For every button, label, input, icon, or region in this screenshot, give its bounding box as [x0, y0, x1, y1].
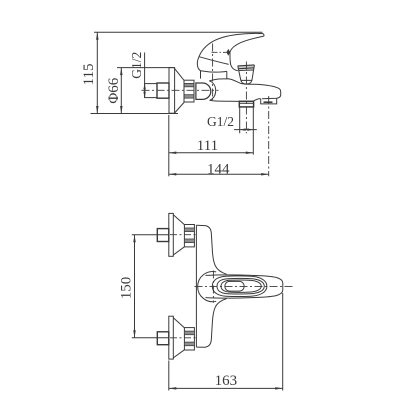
eccentric pipe — [145, 84, 157, 98]
svg-text:163: 163 — [215, 373, 238, 389]
wall flange top — [169, 213, 174, 256]
main centerline — [142, 89, 219, 91]
svg-text:144: 144 — [207, 162, 230, 178]
lever crease line — [199, 57, 229, 65]
ridged collar bottom — [184, 328, 194, 350]
dimension 115/Ø66 extension line bottom — [91, 113, 179, 115]
aerator — [261, 98, 277, 104]
cartridge axis — [212, 271, 214, 303]
hex nut top — [157, 229, 169, 242]
lever top plate — [225, 281, 244, 291]
dimension 115 line — [96, 32, 98, 113]
spout top and tip — [253, 84, 281, 99]
aerator axis extension — [268, 96, 270, 176]
diverter centerline — [245, 62, 247, 134]
dimension 115 extension line top — [94, 31, 263, 33]
wall plane extension — [168, 115, 170, 176]
ridged collar top — [184, 225, 194, 247]
cap left edge — [197, 57, 200, 71]
wall flange bottom — [169, 316, 174, 359]
cartridge centerline — [212, 44, 214, 101]
dimension 163 extension left — [168, 361, 170, 391]
wall flange — [169, 68, 175, 114]
connection nut (rounded cap) — [196, 83, 211, 99]
lever contour 3 — [221, 280, 261, 292]
body top edge — [209, 79, 252, 84]
dimension Ø66 line — [120, 68, 122, 114]
svg-text:G1/2: G1/2 — [207, 114, 234, 129]
dimension 163 line — [169, 387, 283, 389]
dimension 163 extension right — [282, 293, 284, 391]
ridged collar — [184, 80, 194, 102]
body back edge — [195, 225, 197, 347]
diverter knob — [238, 65, 255, 68]
cap skirt sides — [200, 71, 202, 79]
svg-text:150: 150 — [119, 277, 135, 300]
dimension 150 extension bottom — [132, 337, 170, 339]
shower outlet collar — [239, 101, 253, 107]
dimension G1/2 (inlet) line — [144, 53, 146, 98]
flange cone — [175, 69, 185, 113]
inlet centerline top — [170, 234, 198, 236]
dimension 144 line — [169, 173, 269, 175]
dimension G1/2 (shower) extensions — [239, 107, 241, 133]
svg-text:111: 111 — [197, 138, 218, 154]
dimension Ø66 extension line top — [117, 67, 175, 69]
spout/grip outer outline — [206, 275, 283, 298]
flange cone bottom — [173, 318, 184, 358]
body centerline — [195, 285, 295, 287]
flange cone top — [173, 215, 184, 255]
hex nut bottom — [157, 332, 169, 345]
svg-text:Φ66: Φ66 — [106, 77, 122, 103]
dimension 150 line — [134, 235, 136, 338]
dimension 150 extension top — [132, 234, 170, 236]
cap dome rim — [201, 71, 227, 72]
bottom inlet horn — [196, 299, 226, 348]
handle pivot marker — [226, 49, 230, 56]
body bottom edge — [210, 100, 240, 101]
hex nut — [157, 83, 169, 98]
lever contour 1 — [212, 276, 267, 297]
top inlet horn — [196, 225, 226, 274]
body end cap — [209, 81, 215, 101]
svg-text:115: 115 — [81, 64, 97, 86]
lever contour 2 — [217, 278, 264, 293]
dimension G1/2 (shower) line — [234, 129, 257, 131]
svg-text:G1/2: G1/2 — [129, 52, 144, 79]
lever handle — [199, 33, 264, 70]
dimension 111 line — [169, 152, 254, 154]
handle boss circle — [198, 271, 217, 301]
pivot centerline — [212, 51, 232, 53]
inlet centerline bottom — [170, 337, 198, 339]
